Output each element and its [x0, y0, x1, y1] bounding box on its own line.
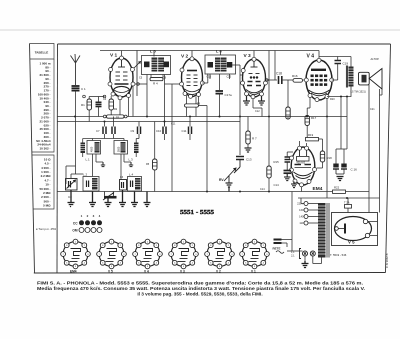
- junction dots: [74, 116, 348, 200]
- resistor R17: [305, 116, 317, 126]
- ground mid rail: [228, 187, 230, 192]
- output transformer: [349, 67, 354, 87]
- misc small labels: [103, 77, 375, 192]
- wire bus B: [58, 121, 241, 123]
- IF transformer L6: [205, 55, 236, 74]
- wire ant coil: [82, 139, 84, 158]
- svg-text:LS TM (1521): LS TM (1521): [351, 91, 366, 94]
- svg-text:V 4: V 4: [144, 270, 149, 274]
- capacitor C4a: [96, 102, 102, 106]
- tube V2: [182, 59, 203, 97]
- resistor R7: [246, 131, 257, 144]
- socket V4: [133, 239, 163, 269]
- wire x269: [268, 117, 270, 192]
- wire C16 top: [336, 97, 347, 165]
- svg-text:R6: R6: [197, 103, 201, 106]
- wire L6 top: [220, 51, 222, 56]
- svg-text:V 2: V 2: [181, 54, 189, 60]
- wire HT rail: [298, 197, 380, 199]
- svg-text:140: 140: [299, 215, 304, 219]
- svg-text:C10: C10: [156, 129, 162, 133]
- svg-text:OM: OM: [72, 228, 77, 232]
- svg-text:L.3: L.3: [129, 158, 134, 162]
- capacitor C10: [163, 127, 166, 135]
- ground R5: [144, 192, 151, 207]
- svg-text:CC: CC: [73, 221, 78, 225]
- gang trimmers: [103, 192, 117, 201]
- svg-text:Media frequenza 470 kc/s. Cons: Media frequenza 470 kc/s. Consumo 35 wat…: [37, 286, 365, 291]
- capacitors C7 C8 row: [103, 127, 115, 135]
- wire R7: [247, 117, 249, 149]
- svg-text:R15: R15: [274, 160, 280, 164]
- capacitor C11: [189, 127, 192, 135]
- potentiometer RV: [224, 160, 240, 184]
- svg-text:RV: RV: [219, 178, 224, 182]
- socket V2: [205, 239, 235, 269]
- svg-text:V 1: V 1: [251, 270, 256, 274]
- svg-text:3: 3: [93, 214, 95, 218]
- svg-text:C14: C14: [274, 183, 280, 187]
- resistor R16: [293, 79, 303, 83]
- wire L6 right to V3: [232, 65, 243, 122]
- wire top rail: [100, 50, 319, 52]
- svg-text:C6: C6: [163, 77, 167, 80]
- speaker: [359, 69, 383, 90]
- svg-text:V 5: V 5: [348, 240, 355, 245]
- wire fuse: [347, 198, 349, 213]
- fuse: [345, 205, 352, 209]
- svg-text:L 5: L 5: [150, 49, 156, 54]
- capacitor C1: [72, 86, 80, 91]
- transformer taps: [304, 202, 308, 226]
- svg-text:C9: C9: [131, 129, 135, 133]
- capacitor C15: [208, 62, 214, 68]
- svg-text:C7: C7: [96, 129, 100, 133]
- svg-text:R17: R17: [311, 116, 317, 120]
- svg-text:RETE: RETE: [273, 247, 281, 251]
- page edge line: [0, 29, 400, 31]
- wire x240: [239, 122, 241, 156]
- wire trimmer C2: [71, 174, 83, 195]
- svg-text:R 4: R 4: [153, 82, 158, 86]
- trimmer C2: [66, 179, 78, 191]
- svg-text:L 6: L 6: [216, 49, 222, 54]
- resistor R6: [185, 104, 199, 107]
- svg-text:EM4: EM4: [313, 186, 323, 192]
- wire V3 bottom: [253, 99, 262, 117]
- resistor R3: [103, 115, 127, 118]
- capacitor C18: [279, 76, 282, 84]
- wire bus A: [58, 116, 348, 118]
- svg-text:TABELLE: TABELLE: [35, 51, 49, 55]
- svg-text:C 1: C 1: [81, 87, 86, 91]
- tube V1: [110, 58, 133, 97]
- svg-text:● Toni p.m. 45%: ● Toni p.m. 45%: [36, 227, 57, 231]
- wire C19: [332, 57, 338, 81]
- IF transformer L5: [142, 56, 171, 75]
- wire C4a: [98, 97, 100, 117]
- svg-text:R 7: R 7: [252, 137, 257, 141]
- svg-text:R1: R1: [81, 103, 85, 107]
- table box 2: [32, 155, 54, 209]
- ground EM4 left: [291, 182, 297, 188]
- svg-text:110: 110: [299, 221, 304, 225]
- svg-text:R20: R20: [330, 98, 335, 101]
- wire R1: [89, 97, 104, 122]
- svg-text:C18: C18: [276, 72, 282, 76]
- svg-text:L.2: L.2: [83, 173, 88, 177]
- svg-text:V 4: V 4: [307, 54, 315, 60]
- svg-text:10 302 -: 10 302 -: [39, 147, 50, 151]
- socket EM4: [61, 239, 91, 269]
- capacitor C6: [164, 62, 170, 68]
- resistor R18: [320, 151, 332, 162]
- svg-text:C.N 1062 B: C.N 1062 B: [385, 253, 389, 268]
- svg-text:V 3: V 3: [180, 270, 185, 274]
- ground gang: [105, 199, 112, 207]
- capacitor C5: [144, 62, 150, 68]
- coil L3: [114, 141, 128, 155]
- svg-text:C11: C11: [182, 129, 187, 133]
- wire V4 right down: [326, 99, 328, 117]
- wire R16 to V4: [302, 79, 306, 81]
- wires taps: [301, 198, 318, 223]
- capacitor C19: [335, 61, 342, 64]
- V5 box: [332, 213, 378, 246]
- wire L5 top: [153, 51, 155, 57]
- capacitor C13: [236, 157, 244, 160]
- svg-text:5 MΩ: 5 MΩ: [43, 204, 51, 208]
- table rows 2: [39, 158, 51, 208]
- capacitor C20: [227, 62, 233, 68]
- ground small mid: [101, 162, 105, 167]
- trimmer L5 left: [134, 51, 141, 97]
- svg-text:ALTOP.: ALTOP.: [371, 57, 380, 61]
- junction circles: [83, 79, 268, 98]
- svg-text:V 2: V 2: [216, 270, 221, 274]
- capacitor C16a: [333, 164, 339, 174]
- wire x327: [326, 117, 328, 199]
- wire EM4: [287, 139, 322, 192]
- osc coil: [134, 143, 139, 154]
- wire bottom rail: [58, 191, 333, 193]
- wire C18 junction up: [274, 51, 276, 81]
- svg-text:T 2A: T 2A: [344, 201, 350, 205]
- svg-text:FIMI S. A. - PHONOLA - Modd. 5: FIMI S. A. - PHONOLA - Modd. 5553 e 5555…: [37, 280, 363, 285]
- wire V3 to C18: [265, 79, 277, 81]
- table rows 1: [36, 62, 51, 151]
- ground L2: [89, 192, 96, 207]
- wire OT top: [350, 57, 352, 67]
- switch position labels: [81, 214, 101, 218]
- svg-text:R19: R19: [308, 133, 314, 137]
- capacitor C17a: [216, 91, 224, 94]
- resistor R1: [81, 99, 92, 110]
- wire antenna down: [75, 91, 77, 174]
- wire x207: [206, 117, 208, 192]
- wire V3 top: [253, 51, 255, 58]
- svg-text:L.4: L.4: [129, 173, 134, 177]
- socket V1: [240, 239, 270, 269]
- wire V4 top: [318, 51, 320, 59]
- wire rail B: [319, 56, 351, 58]
- svg-text:160: 160: [299, 208, 304, 212]
- plug pins: [300, 249, 316, 259]
- wire V2 right to L6: [202, 74, 208, 84]
- resistor R22: [333, 190, 346, 193]
- coil L2: [83, 177, 99, 192]
- svg-text:C17a: C17a: [225, 93, 233, 97]
- wire V4 to R17: [307, 98, 310, 138]
- ground C16: [336, 174, 344, 181]
- svg-text:Il 3 volume pag. 355 - Modd. 5: Il 3 volume pag. 355 - Modd. 5529, 5530,…: [137, 292, 262, 297]
- svg-text:C12: C12: [255, 110, 260, 113]
- svg-text:C5: C5: [139, 77, 143, 80]
- svg-text:T. 5519 - 546: T. 5519 - 546: [330, 253, 347, 257]
- svg-text:C11: C11: [171, 123, 176, 126]
- antenna primary coil: [81, 143, 86, 154]
- wire OT bottom: [327, 87, 351, 97]
- svg-text:4: 4: [99, 214, 101, 218]
- svg-text:1: 1: [81, 214, 83, 218]
- svg-text:V 3: V 3: [244, 53, 252, 59]
- svg-text:3800: 3800: [118, 146, 121, 152]
- svg-text:C13: C13: [246, 158, 252, 162]
- ground C2: [68, 190, 75, 207]
- antenna: [71, 54, 81, 85]
- svg-text:C15: C15: [207, 76, 212, 79]
- wire R22 to right: [346, 191, 370, 193]
- wires caps to coils: [83, 117, 190, 141]
- wire V2 top: [191, 51, 193, 57]
- wires coils middle: [93, 154, 132, 180]
- tube EM4: [291, 147, 315, 185]
- ground V3 right: [258, 96, 265, 105]
- capacitor C9: [138, 127, 141, 135]
- capacitor EM4 left: [285, 157, 291, 162]
- wire: [219, 94, 221, 117]
- wire x377: [379, 89, 381, 198]
- svg-text:EM4: EM4: [70, 270, 77, 274]
- svg-text:C21: C21: [370, 108, 375, 111]
- svg-text:C19: C19: [343, 62, 349, 66]
- svg-text:C14: C14: [260, 188, 265, 191]
- wire R18 down: [317, 162, 323, 168]
- svg-text:4800: 4800: [91, 146, 94, 152]
- tube V4: [306, 60, 332, 100]
- ground RV: [226, 183, 233, 187]
- resistor R8: [286, 80, 290, 119]
- svg-text:C4: C4: [103, 98, 107, 101]
- wire V2 left pin to L5: [135, 83, 180, 85]
- socket V3: [169, 239, 199, 269]
- capacitor C16b: [341, 164, 347, 174]
- table box 1: [32, 59, 54, 152]
- switch: [276, 251, 284, 254]
- ground L4: [131, 192, 138, 207]
- power transformer: [318, 203, 326, 258]
- wire V1 bottom: [120, 86, 133, 117]
- tube V5: [335, 217, 372, 241]
- wire osc coil: [135, 139, 137, 158]
- ground C3: [119, 190, 126, 207]
- svg-text:5551 - 5555: 5551 - 5555: [180, 209, 214, 216]
- svg-text:V 1: V 1: [110, 53, 118, 59]
- ground V3 left: [243, 96, 250, 105]
- wire R2: [110, 96, 112, 117]
- svg-text:2: 2: [87, 214, 89, 218]
- wire V2 bottoms: [187, 95, 208, 116]
- ground plug: [302, 261, 309, 268]
- wire padder: [65, 166, 67, 184]
- svg-text:R2: R2: [114, 108, 118, 111]
- svg-text:L.1: L.1: [86, 158, 91, 162]
- coil L1: [87, 141, 101, 155]
- wire C11 down: [171, 84, 173, 192]
- svg-text:V 5: V 5: [108, 270, 113, 274]
- tube V3: [243, 59, 266, 97]
- resistor R5: [153, 159, 158, 170]
- wires L5 down: [147, 75, 165, 127]
- table header box: [30, 44, 55, 60]
- wires rete: [282, 192, 293, 252]
- svg-text:C20: C20: [227, 76, 232, 79]
- trimmer C3: [120, 180, 127, 191]
- resistor R2: [109, 99, 114, 110]
- svg-text:2,1: 2,1: [291, 254, 295, 258]
- wire plug: [292, 251, 322, 264]
- svg-text:400 600: 400 600: [297, 162, 306, 165]
- svg-text:C 16: C 16: [351, 168, 358, 172]
- resistor R4: [150, 78, 163, 81]
- svg-text:R5: R5: [146, 163, 150, 166]
- resistor R19: [306, 138, 319, 141]
- wires L6 down: [210, 74, 230, 90]
- ground small mid2: [129, 162, 133, 167]
- ground R7: [245, 148, 252, 152]
- wire speaker down: [369, 85, 382, 95]
- wire V5: [368, 222, 378, 236]
- svg-text:C3: C3: [120, 176, 124, 179]
- wire osc feed: [268, 51, 270, 117]
- wire R5: [154, 122, 156, 192]
- schematic frame: [30, 44, 391, 274]
- coil L4: [128, 177, 142, 192]
- wire V1 top: [121, 51, 123, 57]
- wire x368: [368, 89, 370, 213]
- mains cap RETE: [274, 240, 282, 244]
- svg-text:R16: R16: [292, 74, 298, 78]
- svg-text:R22: R22: [334, 186, 340, 190]
- resistor R15: [267, 160, 279, 187]
- wire C18 to R16: [282, 79, 293, 81]
- socket V5: [97, 239, 127, 269]
